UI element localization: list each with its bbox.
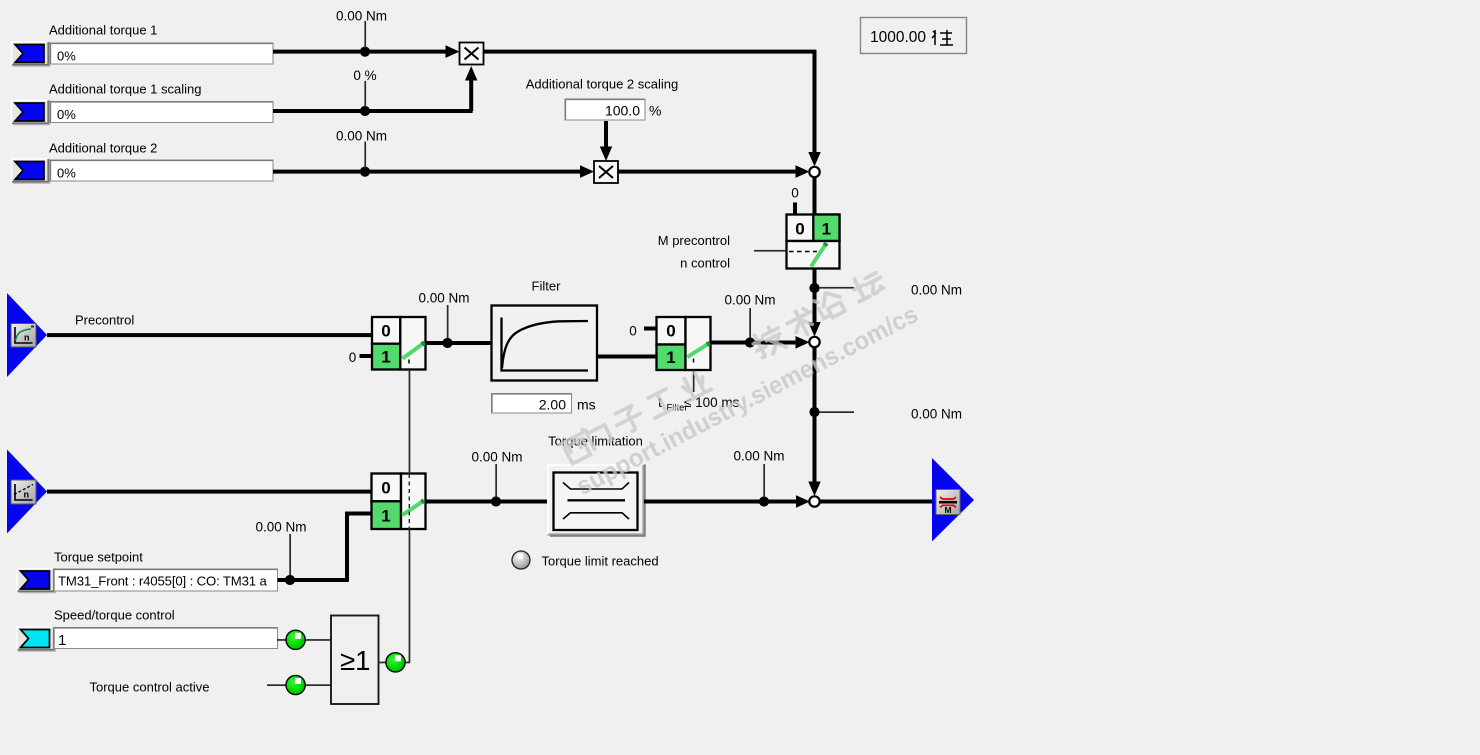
node junction mid column: [809, 407, 819, 417]
svg-text:Additional torque 2 scaling: Additional torque 2 scaling: [526, 77, 679, 92]
wire field to LED1: [277, 639, 286, 641]
connector P3 Additional torque 2: [11, 159, 50, 184]
wire torque setpoint to SW3 input 1: [278, 512, 372, 583]
svg-text:n control: n control: [680, 256, 730, 271]
filter block: [492, 306, 598, 381]
svg-text:≥1: ≥1: [340, 645, 370, 676]
wire torque1 to multiplier: [273, 45, 460, 58]
selector switch SW-M (M precontrol / n control): [787, 215, 840, 269]
selector switch SW3 speed/torque: [372, 474, 426, 530]
svg-text:0.00 Nm: 0.00 Nm: [911, 283, 962, 298]
torque limitation block: [548, 465, 646, 537]
LED speed/torque control: [286, 630, 305, 649]
svg-text:0: 0: [349, 350, 357, 365]
probe line 0.00 Nm right of SW-M: [819, 283, 962, 298]
connector P4 torque setpoint: [17, 568, 56, 593]
selector switch SW2 filter bypass: [657, 317, 711, 370]
wire LED1 to OR gate: [306, 639, 332, 641]
stub input 0 of SW1: [360, 354, 373, 358]
summing node S2: [809, 337, 819, 347]
svg-text:Additional torque 2: Additional torque 2: [49, 141, 157, 156]
wire torque2 to multiplier M2: [273, 165, 594, 178]
probe line 0.00 Nm (torque 1): [336, 9, 387, 49]
wire SW2 to summing node S2: [711, 336, 810, 349]
wire S3 to output triangle: [820, 500, 933, 504]
watermark CJK line (drawn strokes): [559, 268, 885, 465]
svg-text:0.00 Nm: 0.00 Nm: [255, 520, 306, 535]
svg-text:0: 0: [666, 322, 675, 341]
node torque1 junction: [360, 47, 370, 57]
selector switch SW1 precontrol enable: [372, 317, 426, 370]
control stub below SW2: [693, 370, 695, 392]
svg-text:0: 0: [795, 220, 804, 239]
field p1511 value 0%: [50, 43, 273, 64]
svg-text:Additional torque 1: Additional torque 1: [49, 23, 157, 38]
svg-text:support.industry.siemens.com/c: support.industry.siemens.com/cs: [572, 300, 923, 501]
svg-text:0%: 0%: [57, 49, 76, 64]
field p1514 value 100.0 %: [565, 99, 661, 120]
node junction after SW1: [442, 338, 452, 348]
wire multiplier M2 to summing node S1: [618, 165, 810, 178]
icon n precontrol curve: [11, 324, 36, 348]
node junction after torque limitation: [759, 496, 769, 506]
svg-text:0: 0: [381, 322, 390, 341]
connector P5 speed/torque control (binector): [17, 627, 56, 652]
wire S2 down to summing node S3: [808, 347, 820, 496]
svg-text:1000.00: 1000.00: [870, 29, 926, 46]
svg-text:1: 1: [381, 507, 390, 526]
probe line 0.00 Nm (torque 2): [336, 129, 387, 169]
probe line 0.00 Nm after SW2: [724, 293, 775, 339]
field torque setpoint TM31: [54, 569, 278, 591]
stub input 0 of SW2: [644, 327, 657, 331]
svg-text:%: %: [649, 103, 661, 119]
svg-text:ms: ms: [577, 397, 596, 413]
wire scaling2 to multiplier M2 top: [600, 121, 612, 161]
svg-text:Speed/torque control: Speed/torque control: [54, 608, 175, 623]
svg-text:0.00 Nm: 0.00 Nm: [471, 450, 522, 465]
label t Filter limit: [658, 395, 740, 414]
svg-text:100.0: 100.0: [605, 103, 640, 119]
svg-text:1: 1: [822, 220, 831, 239]
wire SW-M down to summing node S2: [808, 269, 820, 337]
svg-text:1: 1: [58, 632, 66, 649]
node junction before torque limitation: [491, 496, 501, 506]
connector P1 Additional torque 1: [11, 42, 50, 67]
wire filter to switch SW2: [597, 355, 657, 359]
wire n-controller to switch SW3: [47, 490, 372, 494]
svg-text:n: n: [24, 490, 30, 500]
svg-text:0%: 0%: [57, 166, 76, 181]
svg-text:Additional torque 1 scaling: Additional torque 1 scaling: [49, 82, 202, 97]
svg-text:Torque control active: Torque control active: [90, 680, 210, 695]
svg-text:Precontrol: Precontrol: [75, 313, 134, 328]
multiplier M1: [460, 43, 484, 65]
wire SW1 to filter: [426, 341, 492, 345]
svg-text:0.00 Nm: 0.00 Nm: [724, 293, 775, 308]
svg-text:0 %: 0 %: [353, 68, 376, 83]
LED torque limit reached: [512, 551, 530, 569]
node scaling1 junction: [360, 106, 370, 116]
svg-text:n: n: [24, 333, 30, 343]
connector P2 Additional torque 1 scaling: [11, 100, 50, 125]
svg-text:M: M: [944, 505, 951, 515]
svg-text:Torque limit reached: Torque limit reached: [542, 554, 659, 569]
field p1513 value 0%: [50, 160, 273, 181]
probe line 0.00 Nm torque setpoint: [255, 520, 306, 576]
control pointer line into SW-M: [754, 250, 787, 252]
summing node S3: [809, 496, 819, 506]
output connector triangle torque setpoint: [932, 458, 974, 542]
icon n controller ramp: [11, 480, 36, 504]
probe line 0.00 Nm after limitation: [733, 449, 784, 498]
svg-text:TM31_Front : r4055[0] : CO: TM: TM31_Front : r4055[0] : CO: TM31 a: [58, 574, 267, 589]
svg-text:0%: 0%: [57, 107, 76, 122]
wire SW3 to torque limitation: [426, 500, 548, 504]
LED OR gate output: [386, 653, 405, 672]
input connector triangle n-controller torque: [7, 450, 47, 534]
wire torque limitation to summing node S3: [644, 495, 810, 508]
LED torque control active: [286, 675, 305, 694]
control line from OR gate up through switches: [405, 370, 410, 664]
wire LED2 to OR gate: [306, 684, 332, 686]
stub input 0 of SW-M: [793, 203, 797, 215]
svg-text:0.00 Nm: 0.00 Nm: [911, 407, 962, 422]
probe line 0.00 Nm mid column: [819, 407, 962, 422]
node junction after SW2: [745, 337, 755, 347]
wire S1 to selector switch SW-M: [813, 177, 817, 215]
field filter time 2.00 ms: [492, 394, 596, 414]
svg-text:2.00: 2.00: [539, 397, 566, 413]
icon torque limit output: [936, 490, 960, 516]
OR gate GE1: [331, 616, 379, 705]
probe line 0 %: [353, 68, 376, 107]
node junction below SW-M: [809, 283, 819, 293]
wire multiplier M1 to corner down to summing node S1: [484, 50, 821, 167]
svg-text:Filter: Filter: [532, 279, 562, 294]
svg-text:1: 1: [666, 348, 675, 367]
wire scaling1 to multiplier bottom: [273, 66, 477, 113]
wire label to LED2: [267, 684, 286, 686]
svg-text:Torque setpoint: Torque setpoint: [54, 550, 143, 565]
svg-text:0.00 Nm: 0.00 Nm: [336, 129, 387, 144]
summing node S1: [809, 167, 819, 177]
svg-text:0: 0: [791, 186, 799, 201]
multiplier M2: [594, 161, 618, 183]
svg-text:0.00 Nm: 0.00 Nm: [418, 291, 469, 306]
node torque2 junction: [360, 167, 370, 177]
svg-text:0.00 Nm: 0.00 Nm: [733, 449, 784, 464]
field p1512 value 0%: [50, 102, 273, 123]
display box 1000.00: [861, 18, 967, 54]
wire precontrol to switch SW1: [47, 333, 372, 337]
field speed/torque control value 1: [54, 628, 278, 650]
probe line 0.00 Nm after SW1: [418, 291, 469, 339]
input connector triangle n-precontrol: [7, 293, 47, 377]
svg-text:M precontrol: M precontrol: [658, 233, 730, 248]
probe line 0.00 Nm before limitation: [471, 450, 522, 498]
svg-text:0: 0: [629, 324, 637, 339]
svg-text:0: 0: [381, 479, 390, 498]
svg-text:0.00 Nm: 0.00 Nm: [336, 9, 387, 24]
wire OR gate to LED3: [379, 662, 387, 664]
node junction torque setpoint: [285, 575, 295, 585]
svg-text:1: 1: [381, 348, 390, 367]
